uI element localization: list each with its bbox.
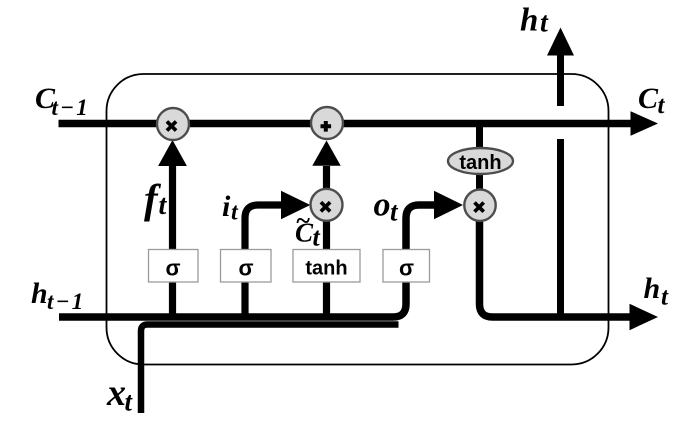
cell body rounded rectangle: [107, 74, 609, 365]
label i_t: [222, 190, 239, 226]
wire: x_t input line (vertical then right, parallel under h line): [141, 325, 399, 414]
label h_t top: [520, 3, 549, 39]
tanh ellipse: [448, 148, 513, 174]
wire: cell-state line C (horizontal, top): [59, 120, 633, 127]
svg-text:C: C: [638, 82, 659, 115]
label f_t: [144, 176, 168, 222]
svg-text:h: h: [520, 3, 538, 39]
svg-text:h: h: [644, 272, 661, 305]
multiply circle input gate: [311, 189, 343, 221]
svg-text:σ: σ: [238, 256, 253, 281]
wire: forget-gate vertical f: [169, 165, 176, 317]
wire: output branch vertical through tanh ellipse and multiply circle: [476, 122, 483, 222]
wire: candidate line C-tilde (vertical through tanh box up to + circle): [323, 166, 330, 317]
arrowhead f into multiply circle: [158, 140, 187, 166]
label C-tilde_t: [295, 206, 321, 252]
wire: h input line merging into o-gate (bottom horizontal then up through sigma4): [59, 205, 434, 317]
arrowhead C_t output: [631, 111, 659, 136]
arrowhead h_t top output: [547, 28, 574, 56]
arrowhead h_t right output: [630, 304, 659, 330]
label x_t: [106, 372, 134, 417]
svg-text:x: x: [106, 372, 126, 414]
multiply circle forget gate: [157, 108, 189, 140]
label o_t: [374, 187, 400, 227]
svg-text:t: t: [125, 387, 134, 417]
gate box sigma2 (input): [221, 250, 272, 283]
gate box tanh (candidate): [293, 250, 360, 283]
arrowhead o-gate into multiply circle: [434, 191, 463, 220]
gate box sigma3 (output): [383, 250, 430, 283]
svg-text:t: t: [159, 190, 168, 221]
svg-text:h: h: [31, 277, 48, 310]
svg-text:t: t: [661, 284, 669, 311]
arrowhead i into multiply circle: [281, 191, 310, 220]
label C_t: [638, 82, 666, 119]
wire: output line from multiply down then right (h output): [480, 220, 631, 317]
wire: h_t upward branch upper segment: [557, 56, 564, 107]
svg-text:t: t: [540, 8, 549, 39]
wire: input-gate line i (up then right into multiply circle): [245, 205, 281, 317]
svg-text:C: C: [295, 218, 314, 248]
svg-text:σ: σ: [165, 256, 180, 281]
svg-text:i: i: [222, 190, 231, 223]
svg-text:o: o: [374, 187, 391, 224]
label C_{t-1}: [35, 82, 90, 120]
svg-text:tanh: tanh: [305, 258, 347, 280]
label h_t right: [644, 272, 670, 311]
arrowhead candidate into plus circle: [312, 141, 340, 166]
wire: h_t upward branch lower segment (gap where C line crosses): [557, 139, 564, 320]
svg-text:t: t: [658, 92, 666, 119]
svg-text:t−1: t−1: [52, 95, 90, 120]
plus circle cell-state add: [311, 107, 343, 139]
label h_{t-1}: [31, 277, 85, 314]
svg-text:σ: σ: [399, 256, 414, 281]
svg-text:t: t: [313, 223, 321, 252]
svg-text:t−1: t−1: [47, 289, 85, 314]
gate box sigma1 (forget): [149, 250, 199, 283]
multiply circle output gate: [464, 190, 495, 221]
svg-text:tanh: tanh: [459, 152, 501, 174]
